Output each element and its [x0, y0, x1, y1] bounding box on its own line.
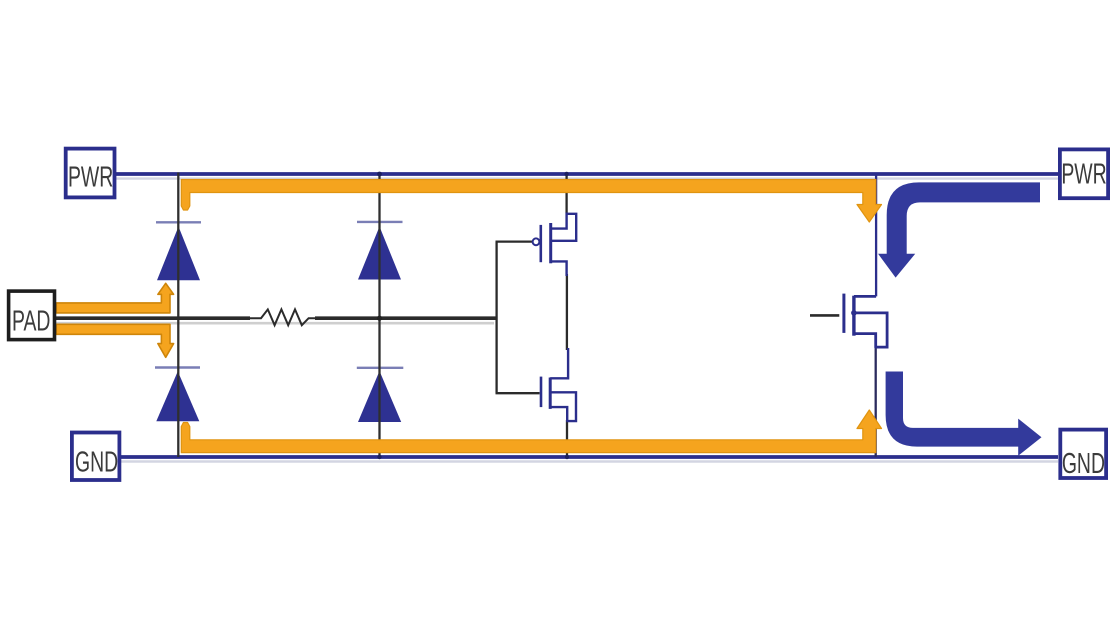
- transistor M1 (big clamp NMOS) gate stub: [810, 314, 839, 317]
- wire shadow: PAD line shadow: [56, 322, 494, 325]
- transistor M1 source lead: [854, 334, 876, 348]
- transistor Q1 bulk lead: [551, 214, 577, 241]
- diode D3 (second stage to PWR) triangle: [358, 227, 401, 280]
- wire: inverter output vertical (PMOS to NMOS): [566, 274, 568, 350]
- wire: PMOS gate lead: [496, 240, 533, 242]
- wire: second diode column (x=379.5, PWR rail to GND rail): [378, 173, 380, 458]
- transistor M1 channel bar: [852, 296, 855, 336]
- wire: resistor to inverter gate node: [315, 316, 498, 320]
- svg-text:PWR: PWR: [68, 162, 113, 194]
- wire: PAD horizontal line (PAD box to resistor): [56, 316, 250, 320]
- diode D2 cathode bar: [155, 366, 200, 368]
- port box: PWR (top left): [66, 149, 115, 198]
- transistor Q2 bulk lead: [550, 392, 576, 421]
- wire: PWR rail (top, PWR-to-PWR): [116, 172, 1058, 176]
- transistor Q2 channel bar: [549, 378, 552, 409]
- diode D1 cathode bar: [156, 221, 201, 223]
- current path (blue): from right PWR down into clamp drain: [878, 182, 1040, 277]
- diode D3 cathode bar: [357, 221, 403, 223]
- wire: clamp drain to PWR rail (x=876): [875, 174, 877, 296]
- node: M1 bulk-channel junction dot: [851, 310, 857, 316]
- svg-text:GND: GND: [75, 447, 118, 479]
- transistor Q2 drain lead (to output): [550, 348, 568, 378]
- node: second column on PWR rail: [377, 172, 382, 177]
- wire: clamp source to GND rail: [875, 347, 877, 457]
- transistor Q2 source lead (to GND): [550, 407, 567, 421]
- svg-text:PWR: PWR: [1061, 159, 1106, 191]
- transistor M1 gate bar: [842, 294, 845, 333]
- wire: GND rail (bottom, GND-to-GND): [121, 455, 1058, 459]
- svg-text:PAD: PAD: [12, 306, 50, 338]
- node: PAD line and second column junction: [377, 316, 382, 321]
- transistor Q1 channel bar: [549, 223, 552, 263]
- svg-text:GND: GND: [1062, 448, 1105, 480]
- port box: PWR (top right): [1060, 149, 1108, 198]
- current arrow (orange): PAD into top diode arm with up arrow: [56, 283, 173, 313]
- transistor Q1 drain lead (to output): [551, 261, 567, 276]
- diode D2 (GND to PAD, left column) triangle: [156, 371, 199, 421]
- node: second column on GND rail: [377, 455, 381, 459]
- node: inverter column on GND rail: [565, 455, 569, 459]
- transistor Q1 gate bar: [539, 225, 542, 262]
- diode D4 (GND to second stage) triangle: [358, 371, 401, 422]
- transistor Q1 source lead (to PWR): [551, 213, 567, 229]
- wire shadow: GND rail shadow: [121, 460, 1058, 462]
- diode D1 (PAD to PWR, left column) triangle: [157, 227, 200, 281]
- wire: PWR rail to PMOS drain (black drop, x=566.6): [565, 174, 567, 213]
- diode D4 cathode bar: [357, 367, 404, 369]
- transistor M1 bulk lead: [854, 313, 887, 347]
- wire shadow: PWR rail shadow: [116, 177, 1058, 179]
- resistor R1 (zigzag): [250, 309, 317, 325]
- wire: left diode column (x=178, PWR rail to GND rail): [177, 173, 179, 458]
- transistor Q1 (inverter PMOS) gate bubble: [533, 238, 540, 245]
- port box: GND (bottom right): [1060, 430, 1106, 478]
- current path (blue): from clamp source out to right GND: [886, 372, 1042, 456]
- wire: NMOS source to GND rail: [566, 420, 568, 457]
- port box: PAD (left): [9, 291, 55, 340]
- current path (orange): along GND rail to clamp, up arrow at right: [181, 410, 881, 453]
- port box: GND (bottom left): [72, 433, 120, 481]
- current path (orange): along PWR rail to clamp, down arrow at right: [181, 180, 881, 223]
- transistor Q2 (inverter NMOS) gate bar: [540, 377, 543, 408]
- wire: inverter gate vertical (x=496.6): [495, 242, 497, 394]
- current arrow (orange): PAD into bottom diode arm with down arrow: [56, 324, 173, 357]
- wire: NMOS gate lead: [496, 392, 540, 394]
- transistor M1 drain lead: [854, 295, 876, 298]
- node: inverter column on PWR rail: [564, 172, 568, 176]
